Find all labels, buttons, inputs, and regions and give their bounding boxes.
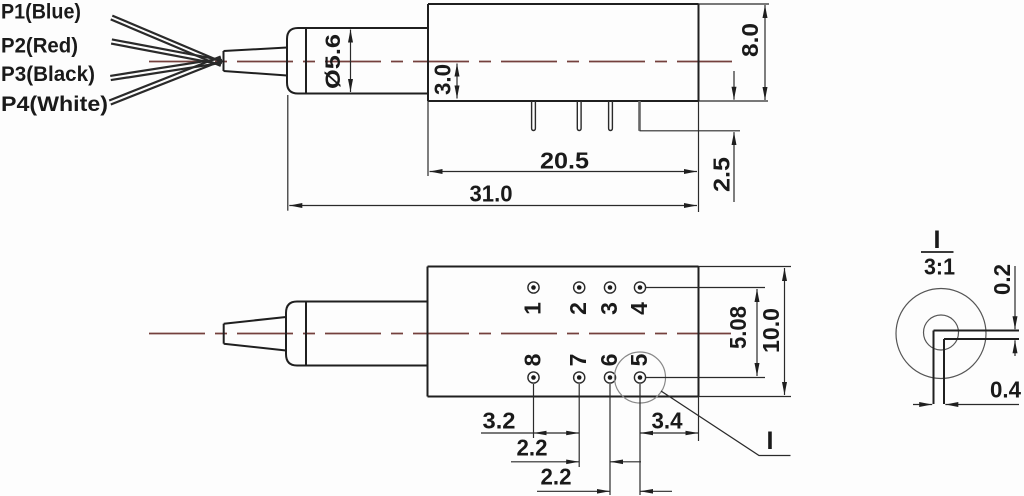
- svg-text:2: 2: [565, 302, 591, 315]
- body right edge extension down: [698, 101, 700, 212]
- svg-text:5.08: 5.08: [725, 306, 751, 349]
- body top edge extension: [699, 3, 770, 5]
- leader line to detail label: [661, 391, 791, 456]
- pin 4 side view: [638, 101, 641, 131]
- centerline top view: [149, 61, 732, 63]
- dimension 3.0: [430, 64, 458, 99]
- dimension 2.2 first: [511, 435, 641, 465]
- bottom view: boot taper: [224, 317, 286, 351]
- top view: body rectangle: [428, 4, 699, 101]
- dimension 2.2 second: [537, 464, 672, 494]
- pin4 row extension line: [646, 287, 765, 289]
- detail circle around pin 5: [615, 352, 666, 403]
- dimension 5.08: [725, 289, 757, 376]
- top view: strain-relief boot (taper): [224, 48, 288, 76]
- pin 1 pad: [528, 282, 539, 293]
- svg-text:10.0: 10.0: [758, 308, 784, 353]
- pin 5 pad: [634, 372, 645, 383]
- pin 5 extension down: [639, 384, 641, 495]
- svg-text:I: I: [767, 427, 774, 455]
- pin 3 side view: [609, 101, 613, 131]
- body top edge extension right: [699, 266, 792, 268]
- pin 4 pad: [634, 282, 645, 293]
- svg-text:2.2: 2.2: [541, 464, 572, 490]
- pin 8 extension down: [533, 384, 535, 438]
- wire P2: [111, 39, 222, 64]
- dimension 20.5: [430, 148, 698, 174]
- svg-text:3.4: 3.4: [652, 408, 683, 434]
- pin 1 side view: [532, 101, 536, 131]
- bottom view: body rectangle: [428, 267, 699, 397]
- bottom view: rounded cap: [286, 302, 306, 366]
- top view: cylinder: [306, 28, 428, 94]
- pin 2 side view: [577, 101, 581, 131]
- svg-text:2.2: 2.2: [517, 435, 548, 461]
- detail title fraction bar: [921, 251, 954, 253]
- body bottom edge extension right: [699, 396, 792, 398]
- dimension D5.6: [321, 30, 351, 93]
- svg-text:Ø5.6: Ø5.6: [321, 34, 345, 89]
- svg-text:P4(White): P4(White): [1, 92, 108, 116]
- dimension 0.2: [989, 264, 1015, 356]
- dimension 3.4: [640, 408, 699, 436]
- pin 8 pad: [528, 372, 539, 383]
- pin 3 pad: [604, 282, 615, 293]
- svg-text:31.0: 31.0: [470, 181, 513, 207]
- wire P3: [110, 59, 222, 81]
- svg-text:8: 8: [520, 353, 546, 366]
- pin tip extension line: [640, 130, 741, 132]
- dimension 2.5: [709, 71, 735, 202]
- wire P1: [111, 16, 223, 66]
- svg-text:0.2: 0.2: [989, 264, 1015, 295]
- body left edge extension down: [427, 101, 429, 176]
- pin 7 pad: [574, 372, 585, 383]
- svg-text:P3(Black): P3(Black): [1, 62, 95, 86]
- svg-text:5: 5: [626, 353, 652, 366]
- pin 2 pad: [574, 282, 585, 293]
- svg-text:3.2: 3.2: [483, 408, 516, 434]
- top view: rounded cap: [287, 28, 306, 94]
- bottom view: cylinder: [306, 302, 428, 366]
- pin5 row extension line: [646, 377, 765, 379]
- pin 6 extension down: [609, 384, 611, 495]
- pin 6 pad: [604, 372, 615, 383]
- svg-text:P1(Blue): P1(Blue): [1, 0, 81, 23]
- dimension 3.2: [481, 408, 579, 436]
- detail pin cross-section L bars: [934, 331, 1020, 405]
- dimension 31.0: [289, 181, 697, 207]
- bottom view: cap/cylinder separator: [305, 302, 307, 366]
- svg-text:8.0: 8.0: [737, 23, 763, 57]
- svg-text:4: 4: [626, 302, 652, 315]
- svg-text:7: 7: [565, 354, 591, 367]
- svg-text:P2(Red): P2(Red): [1, 34, 78, 58]
- cap left extension down: [287, 95, 289, 211]
- body bottom edge extension: [699, 100, 769, 102]
- detail outer circle (pad): [896, 289, 986, 379]
- svg-text:3.0: 3.0: [430, 64, 456, 95]
- top view: cap/cylinder separator: [305, 28, 307, 94]
- wire P4: [109, 57, 222, 105]
- svg-text:2.5: 2.5: [709, 157, 735, 192]
- dimension 10.0: [758, 268, 785, 395]
- pin 7 extension down: [578, 384, 580, 467]
- svg-text:I: I: [934, 226, 941, 254]
- svg-text:20.5: 20.5: [540, 148, 589, 174]
- svg-text:3: 3: [596, 302, 622, 315]
- dimension 8.0: [737, 5, 765, 100]
- centerline bottom view: [149, 333, 731, 335]
- dimension 0.4: [913, 377, 1021, 405]
- svg-text:3:1: 3:1: [924, 254, 955, 280]
- svg-text:1: 1: [520, 302, 546, 315]
- body right edge extension down: [698, 397, 700, 442]
- detail inner circle (hole): [924, 315, 959, 350]
- svg-text:0.4: 0.4: [990, 377, 1021, 403]
